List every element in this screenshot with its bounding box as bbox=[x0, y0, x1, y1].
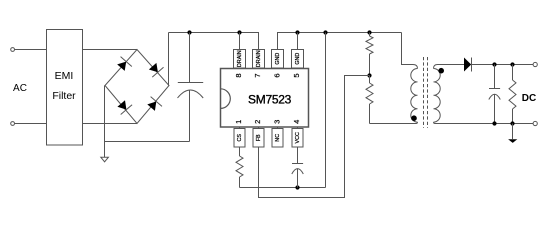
IC U1 SM7523 body bbox=[221, 69, 309, 128]
node (pin8 riser) bbox=[237, 30, 241, 34]
capacitor C2 (VCC cap) bbox=[292, 147, 304, 188]
svg-text:GND: GND bbox=[275, 53, 281, 65]
bridge rectifier ring bbox=[105, 50, 169, 124]
node (C3 top) bbox=[492, 62, 496, 66]
resistor R1 bbox=[366, 33, 373, 76]
svg-text:4: 4 bbox=[292, 120, 301, 124]
diode D4 (bottom-right edge) bbox=[145, 97, 162, 113]
node (gnd riser) bbox=[323, 30, 327, 34]
node (pin5 riser) bbox=[295, 30, 299, 34]
transformer T1 secondary bbox=[434, 65, 465, 124]
pin 3 label NC bbox=[272, 129, 283, 148]
diode D1 (left-top edge) bbox=[115, 57, 132, 73]
wire (output bottom rail) bbox=[443, 123, 533, 125]
svg-text:FB: FB bbox=[256, 134, 262, 141]
diode D3 (left-bottom edge) bbox=[116, 99, 133, 115]
node (divider tap) bbox=[367, 73, 371, 77]
wire rail B (gnd rail) bbox=[278, 33, 402, 50]
wire rail A (drain rail) bbox=[169, 33, 259, 50]
svg-text:DRAIN: DRAIN bbox=[256, 50, 262, 67]
transformer phase dot (primary) bbox=[411, 115, 417, 121]
AC input terminal bottom bbox=[11, 122, 15, 126]
resistor R4 (load) bbox=[509, 65, 516, 124]
pin 2 label FB bbox=[253, 129, 264, 148]
wire (ground line to C1 bottom) bbox=[105, 141, 190, 143]
wire (FB feedback path) bbox=[259, 76, 370, 198]
wire (pin5 riser) bbox=[297, 33, 299, 50]
pin 5 label GND bbox=[292, 50, 304, 69]
transformer phase dot (secondary) bbox=[438, 68, 444, 74]
wire (to output ground) bbox=[512, 124, 514, 140]
svg-text:6: 6 bbox=[273, 73, 282, 77]
wire bbox=[15, 49, 47, 51]
pin 6 label GND bbox=[272, 50, 284, 69]
svg-text:1: 1 bbox=[234, 120, 243, 124]
diode D2 (top-right edge) bbox=[147, 61, 164, 77]
ground (AC side, open triangle) bbox=[101, 157, 109, 162]
wire (pin stubs to bottom label boxes) bbox=[239, 127, 241, 129]
DC output terminal - bbox=[533, 121, 537, 125]
node (C1 top) bbox=[187, 30, 191, 34]
wire bbox=[83, 123, 138, 125]
DC output terminal + bbox=[533, 62, 537, 66]
svg-text:SM7523: SM7523 bbox=[248, 93, 292, 107]
ground (output side, filled) bbox=[508, 139, 517, 143]
wire bbox=[15, 123, 47, 125]
node (R4 bottom / gnd) bbox=[510, 121, 514, 125]
wire (output top rail) bbox=[472, 64, 534, 66]
wire (left vertex down to ground) bbox=[104, 86, 106, 158]
node (R1 top) bbox=[367, 30, 371, 34]
node (R4 top) bbox=[510, 62, 514, 66]
svg-text:7: 7 bbox=[253, 73, 262, 77]
svg-text:Filter: Filter bbox=[52, 90, 76, 102]
transformer T1 primary bbox=[370, 33, 418, 124]
svg-text:GND: GND bbox=[295, 53, 301, 65]
pin 4 label VCC bbox=[292, 129, 303, 148]
node (C2 bottom) bbox=[295, 185, 299, 189]
svg-text:3: 3 bbox=[273, 120, 282, 124]
svg-text:5: 5 bbox=[292, 73, 301, 77]
wire (IC ground line) bbox=[240, 187, 326, 189]
resistor R3 (CS sense) bbox=[236, 147, 243, 188]
svg-text:AC: AC bbox=[13, 83, 27, 94]
pin 1 label CS bbox=[234, 129, 245, 148]
svg-text:2: 2 bbox=[253, 120, 262, 124]
wire (gnd riser down right side of IC) bbox=[325, 33, 327, 188]
svg-text:DC: DC bbox=[522, 93, 536, 104]
transformer core bbox=[424, 57, 428, 128]
svg-text:NC: NC bbox=[275, 134, 281, 142]
svg-text:8: 8 bbox=[234, 73, 243, 77]
svg-text:DRAIN: DRAIN bbox=[237, 50, 243, 67]
wire (pin8 riser) bbox=[239, 33, 241, 50]
pin 7 label DRAIN bbox=[253, 50, 265, 69]
AC input terminal top bbox=[11, 48, 15, 52]
svg-text:CS: CS bbox=[237, 134, 243, 142]
svg-text:VCC: VCC bbox=[295, 132, 301, 143]
EMI filter block bbox=[47, 30, 83, 146]
node (C3 bottom) bbox=[492, 121, 496, 125]
capacitor C1 (bulk cap) bbox=[178, 33, 204, 142]
wire (right vertex up) bbox=[168, 33, 170, 86]
diode D5 (output rectifier) bbox=[464, 58, 472, 72]
wire bbox=[83, 49, 138, 51]
capacitor C3 (output cap) bbox=[489, 65, 501, 124]
svg-text:EMI: EMI bbox=[55, 70, 74, 82]
pin 8 label DRAIN bbox=[234, 50, 246, 69]
resistor R2 bbox=[366, 76, 373, 124]
